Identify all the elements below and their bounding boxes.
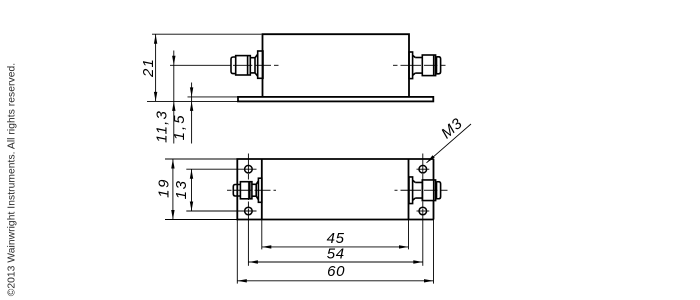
svg-text:60: 60 xyxy=(327,263,345,280)
svg-text:54: 54 xyxy=(327,246,345,263)
svg-text:1,5: 1,5 xyxy=(171,113,188,140)
svg-text:©2013 Wainwright Instruments.: ©2013 Wainwright Instruments. All rights… xyxy=(7,63,18,296)
svg-text:13: 13 xyxy=(173,179,190,199)
svg-text:21: 21 xyxy=(140,58,157,78)
svg-text:11,3: 11,3 xyxy=(154,110,171,143)
svg-text:M3: M3 xyxy=(438,115,466,142)
svg-text:45: 45 xyxy=(327,230,345,247)
svg-text:19: 19 xyxy=(156,178,173,198)
